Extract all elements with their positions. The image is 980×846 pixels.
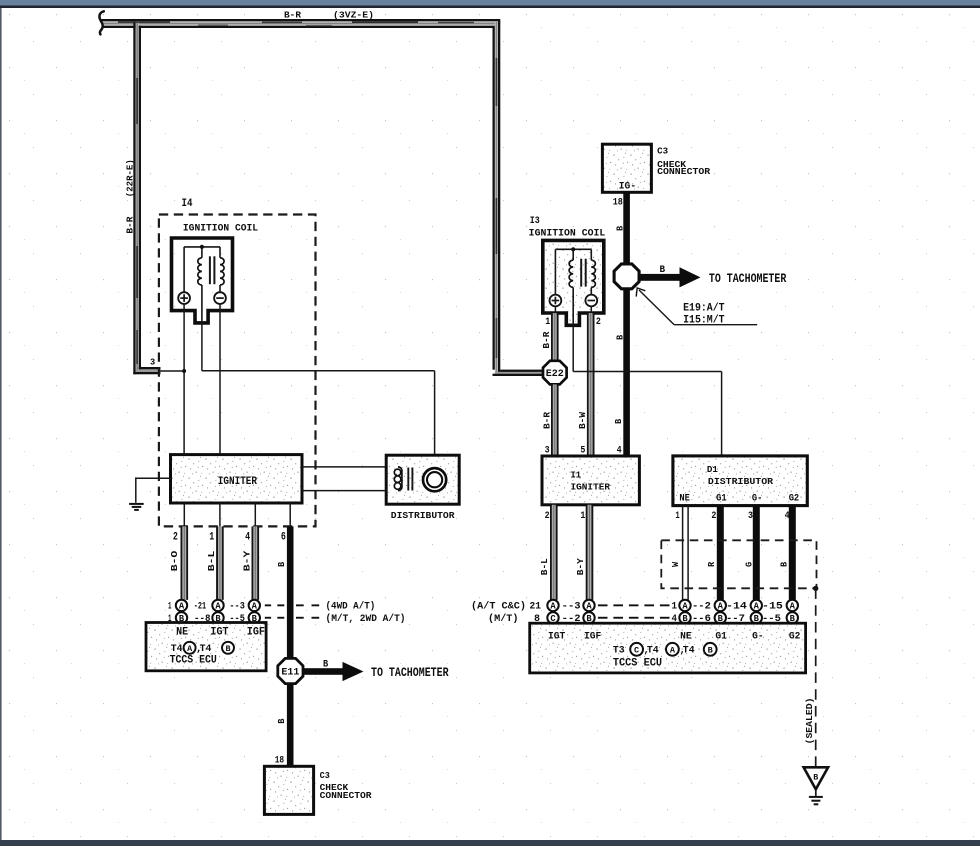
svg-text:1: 1 [545,317,550,328]
wire I4 + terminal to igniter (node with junction) [183,304,185,456]
svg-text:TCCS ECU: TCCS ECU [170,654,217,666]
svg-text:E19:A/T: E19:A/T [683,302,725,314]
svg-text:B: B [613,418,624,424]
svg-text:(4WD A/T): (4WD A/T) [326,601,376,613]
svg-text:B-L: B-L [539,558,550,575]
wire B-R bus right vertical drop [493,19,501,374]
svg-text:IGT: IGT [210,627,229,639]
node octagon E11 [278,658,303,683]
dashed harness box around distributor wires [661,540,816,588]
page left edge rule [0,8,2,840]
svg-text:G-: G- [752,631,764,643]
igniter left bottom pin stubs [183,503,185,526]
wire B-L igniter pin1 to ECU IGT (left) [216,526,224,600]
svg-text:-21: -21 [194,602,206,613]
wire-break brace symbol at bus left end [99,11,103,34]
svg-text:T4: T4 [647,645,659,657]
svg-text:6: 6 [281,532,286,544]
svg-text:1: 1 [168,602,172,613]
svg-text:B-R: B-R [284,10,301,21]
svg-text:B: B [813,772,818,782]
page top header bar [0,0,980,5]
svg-text:2: 2 [596,317,601,328]
svg-text:TO TACHOMETER: TO TACHOMETER [371,665,449,680]
component box TCCS ECU (right) [530,623,806,673]
ignition coil I3 body [543,240,604,325]
svg-text:-15: -15 [762,602,783,613]
component box C3 CHECK CONNECTOR (top) [602,144,651,192]
wire B thick C3 to igniter I1 pin 4 [623,192,630,456]
svg-text:DISTRIBUTOR: DISTRIBUTOR [708,476,774,487]
dashed wire to sealed ground [815,588,817,766]
dashes to 4WD label [265,604,271,606]
svg-text:A: A [682,602,688,612]
page top header rule [0,5,980,8]
svg-text:B: B [615,334,626,340]
svg-text:NE: NE [176,627,188,639]
junction dot sealed branch [813,586,818,591]
svg-text:CONNECTOR: CONNECTOR [320,790,373,801]
distributor pickup coil symbol [394,467,402,491]
svg-text:--2: --2 [692,602,711,613]
leader line E19/I15 to node [639,290,674,325]
svg-text:(A/T C&C): (A/T C&C) [471,601,526,613]
svg-text:B: B [615,225,626,231]
wire B-R bus left vertical (22R-E) [133,21,141,374]
page bottom footer bar [0,840,980,846]
svg-text:1: 1 [580,510,585,522]
svg-text:IGNITER: IGNITER [218,476,257,488]
svg-text:A: A [670,645,676,655]
wire I4 - terminal to igniter [219,304,221,456]
component box I4 dashed outline [159,215,316,527]
svg-text:R: R [706,562,717,567]
svg-text:E22: E22 [546,369,564,380]
wire B-Y igniter pin4 to ECU IGF (left) [252,526,260,600]
distributor core lines [407,468,409,491]
svg-text:1: 1 [672,602,678,613]
svg-text:IGT: IGT [548,631,565,643]
svg-text:G1: G1 [716,492,727,504]
svg-text:C3: C3 [320,770,331,781]
svg-text:A: A [790,602,796,612]
svg-text:IGF: IGF [247,627,265,639]
distributor rotor double circle [423,468,446,491]
junction dot B-R feed at I4 + wire [182,369,186,373]
svg-text:G: G [744,562,755,567]
svg-text:B: B [708,645,713,655]
svg-text:G1: G1 [715,631,727,643]
svg-text:1: 1 [209,532,214,544]
svg-text:-14: -14 [726,602,747,613]
svg-text:CONNECTOR: CONNECTOR [657,166,711,177]
wire G1 thick D1 to ECU [717,506,724,600]
svg-text:(3VZ-E): (3VZ-E) [333,10,374,21]
svg-text:I3: I3 [530,215,540,226]
svg-text:18: 18 [613,197,623,209]
wire I3 secondary to distributor D1 [572,325,574,372]
svg-text:IGNITION COIL: IGNITION COIL [183,223,258,234]
svg-text:A: A [550,602,556,612]
node octagon tachometer tap [614,264,639,289]
ground symbol sealed (triangle B) [804,767,829,789]
svg-text:TO TACHOMETER: TO TACHOMETER [709,271,787,286]
wire B thick igniter pin6 to E11 and C3 [287,526,294,766]
wire pin3 stub to junction [160,370,184,372]
svg-text:B-W: B-W [577,411,588,429]
wire B-W I3 pin2 to igniter I1 pin 5 [590,306,592,313]
svg-text:A: A [754,602,760,612]
svg-text:B-Y: B-Y [575,558,586,576]
component box DISTRIBUTOR (left) [386,455,459,504]
svg-text:NE: NE [680,631,692,643]
svg-text:B-Y: B-Y [242,550,253,571]
component box TCCS ECU (left) [146,623,266,671]
dashes to MT label [265,617,271,619]
svg-text:B-R: B-R [541,411,552,429]
svg-text:(M/T): (M/T) [488,613,519,625]
long dashes to NE column [598,604,608,606]
wire B-R bus bottom turn into node E22 [493,370,545,376]
svg-text:A: A [252,602,258,612]
wire G- thick D1 to ECU [753,506,760,600]
svg-text:(M/T, 2WD A/T): (M/T, 2WD A/T) [326,613,406,625]
svg-text:B-L: B-L [206,551,217,572]
svg-text:I1: I1 [571,469,582,480]
wire NE (white) D1 to ECU [682,506,684,600]
svg-text:D1: D1 [707,464,718,475]
wire B-R bus left bottom turn to pin 3 [133,367,160,374]
svg-text:2: 2 [711,510,716,522]
svg-text:3: 3 [150,357,156,368]
svg-text:C: C [634,645,639,655]
svg-text:4: 4 [245,532,251,544]
wire B-R node E22 to igniter I1 pin 3 [551,384,559,456]
svg-text:B: B [778,562,789,567]
svg-text:I4: I4 [182,198,193,210]
svg-text:DISTRIBUTOR: DISTRIBUTOR [391,510,455,521]
svg-text:2: 2 [173,532,178,544]
arrow TO TACHOMETER (left) [303,668,344,675]
svg-text:NE: NE [679,492,690,504]
svg-text:A: A [179,602,185,612]
svg-text:--3: --3 [562,602,581,613]
svg-text:IGNITER: IGNITER [571,481,611,492]
arrow TO TACHOMETER (right) [638,274,684,281]
component box D1 DISTRIBUTOR [673,456,807,506]
igniter to distributor link wires [302,466,398,468]
component box IGNITER (left) [171,455,303,503]
svg-text:C3: C3 [657,146,668,157]
wire B-O igniter pin2 to ECU NE [181,526,189,600]
svg-text:G-: G- [752,492,763,504]
wire B-L igniter I1 pin2 to ECU IGT [550,505,558,600]
svg-text:1: 1 [675,510,679,522]
svg-text:B: B [225,644,230,654]
svg-text:IG-: IG- [619,180,636,192]
ground symbol (left) [129,503,144,505]
wire I4 secondary to distributor (down, right, down) [201,323,203,371]
svg-text:IGNITION COIL: IGNITION COIL [529,228,606,239]
hatch smudges on bus wires [118,21,497,364]
ignition coil I4 body [172,238,233,323]
svg-text:(22R-E): (22R-E) [124,159,135,197]
svg-text:T3: T3 [613,645,625,657]
svg-text:A: A [215,602,221,612]
wire B-R bus top horizontal (3VZ-E) [102,19,501,28]
svg-text:18: 18 [275,754,284,766]
svg-text:G2: G2 [789,492,800,504]
svg-text:B-R: B-R [124,216,135,233]
svg-text:IGF: IGF [584,631,601,643]
svg-text:21: 21 [530,602,542,613]
svg-text:3: 3 [748,510,753,522]
svg-text:(SEALED): (SEALED) [804,698,815,745]
ground stub wire from igniter [136,477,171,479]
svg-text:A: A [718,602,724,612]
svg-text:A: A [586,602,592,612]
svg-text:B: B [276,718,287,724]
svg-text:W: W [670,562,681,567]
svg-text:B-R: B-R [541,331,552,349]
node octagon E22 [543,361,567,385]
wire B-Y igniter I1 pin1 to ECU IGF [586,505,594,600]
svg-text:E11: E11 [281,668,299,679]
svg-text:G2: G2 [789,631,801,643]
svg-text:I15:M/T: I15:M/T [683,315,725,327]
component box I1 IGNITER [542,456,639,505]
wire B-R I3 pin1 to node E22 [554,306,556,313]
wire G2 thick D1 to ECU [789,506,796,600]
svg-text:2: 2 [545,510,550,522]
component box C3 CHECK CONNECTOR (bottom) [264,766,313,814]
svg-text:B: B [276,561,287,567]
svg-text:T4: T4 [683,645,695,657]
svg-text:B: B [660,264,666,275]
svg-text:B-O: B-O [169,550,180,571]
svg-text:B: B [323,659,328,670]
svg-text:TCCS ECU: TCCS ECU [613,657,662,669]
svg-text:--3: --3 [229,602,245,613]
